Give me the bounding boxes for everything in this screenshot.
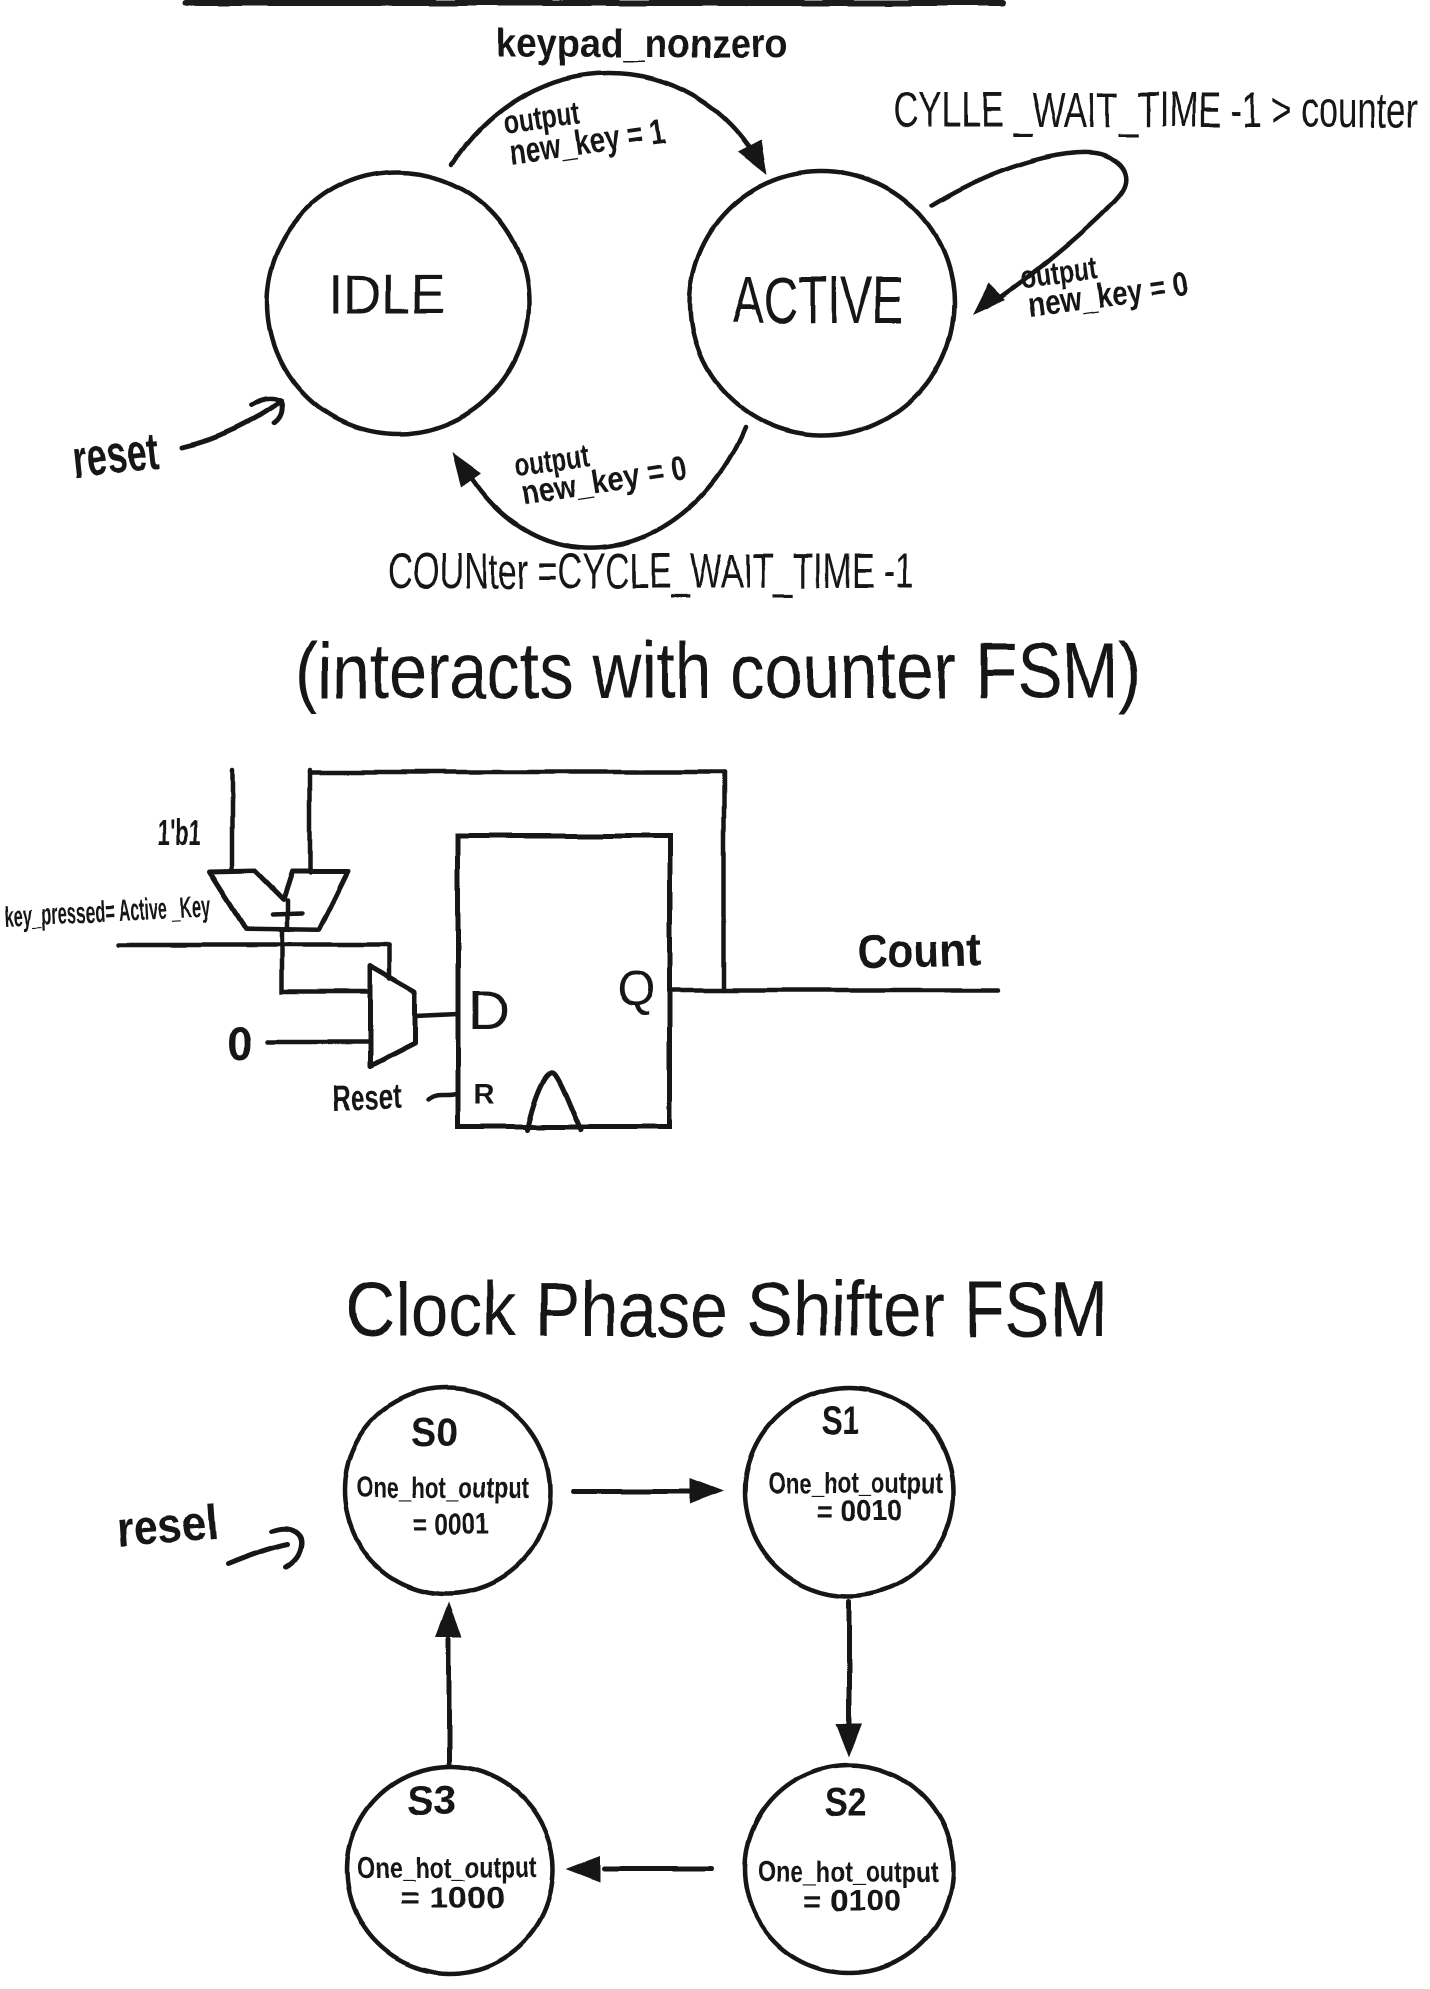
wire mux select vertical — [388, 945, 393, 979]
svg-text:Count: Count — [856, 922, 982, 978]
state S3 — [347, 1767, 553, 1973]
svg-text:0: 0 — [227, 1018, 253, 1070]
wire adder right input vertical — [308, 770, 313, 872]
svg-text:reset: reset — [70, 421, 162, 490]
arrow S2 to S3 — [604, 1867, 712, 1872]
svg-text:(interacts with counter FSM: (interacts with counter FSM) — [295, 626, 1141, 716]
wire mux output to D — [415, 1014, 458, 1016]
self loop on ACTIVE — [932, 152, 1126, 307]
reset arrow to IDLE — [182, 402, 280, 447]
svg-text:keypad_nonzero: keypad_nonzero — [496, 22, 788, 66]
adder plus sign — [272, 900, 302, 927]
svg-text:R: R — [474, 1079, 495, 1111]
svg-text:IDLE: IDLE — [329, 263, 446, 325]
state IDLE — [267, 172, 529, 434]
reset arrow swoosh — [228, 1544, 288, 1564]
transition arc ACTIVE to IDLE — [462, 427, 745, 548]
wire adder left input vertical (1'b1) — [230, 770, 235, 870]
svg-text:ACTIVE: ACTIVE — [732, 263, 904, 337]
action label output new_key = 1 — [500, 82, 668, 173]
svg-text:1'b1: 1'b1 — [157, 812, 200, 853]
svg-text:= 1000: = 1000 — [400, 1882, 505, 1915]
wire adder output — [282, 930, 370, 992]
svg-text:= 0010: = 0010 — [817, 1495, 903, 1528]
flip-flop U3 — [458, 836, 670, 1127]
state ACTIVE — [690, 171, 954, 435]
clock bump — [527, 1072, 581, 1130]
svg-text:CYLLE _WAIT_TIME -1 > counter: CYLLE _WAIT_TIME -1 > counter — [893, 82, 1418, 138]
arrow S0 to S1 — [573, 1489, 703, 1494]
wire feedback top horizontal — [310, 770, 724, 775]
reset arrow hook — [272, 1528, 302, 1567]
arrowhead self loop — [972, 283, 1005, 315]
action label output new_key = 0 (bottom arc) — [512, 422, 689, 514]
arrow S3 to S0 — [447, 1638, 452, 1764]
state S0 — [344, 1388, 550, 1594]
svg-text:resel: resel — [114, 1494, 221, 1557]
reset arrowhead (open) — [252, 399, 282, 423]
wire key_pressed horizontal — [118, 943, 390, 948]
svg-text:key_pressed= Active _Key: key_pressed= Active _Key — [4, 890, 213, 934]
svg-text:S3: S3 — [407, 1779, 457, 1823]
wire reset squiggle — [428, 1094, 458, 1100]
svg-text:S1: S1 — [821, 1399, 859, 1443]
svg-text:S0: S0 — [412, 1411, 458, 1455]
transition arc IDLE to ACTIVE — [452, 73, 762, 168]
svg-text:Q: Q — [617, 961, 656, 1017]
top cropped dark bar — [183, 0, 1006, 6]
svg-text:Reset: Reset — [332, 1077, 403, 1118]
svg-text:Clock Phase Shifter FSM: Clock Phase Shifter FSM — [346, 1265, 1107, 1353]
svg-text:S2: S2 — [825, 1781, 867, 1825]
wire Q output — [670, 988, 998, 993]
wire feedback vertical — [722, 772, 727, 990]
action label output new_key = 0 (self loop) — [1018, 237, 1192, 325]
svg-text:= 0001: = 0001 — [413, 1508, 489, 1541]
adder U1 — [210, 871, 348, 930]
state S1 — [745, 1388, 953, 1596]
arrowhead IDLE to ACTIVE — [738, 140, 767, 175]
arrowhead ACTIVE to IDLE — [452, 452, 481, 487]
svg-text:One_hot_output: One_hot_output — [356, 1472, 528, 1505]
svg-text:= 0100: = 0100 — [804, 1885, 901, 1918]
svg-text:One_hot_output: One_hot_output — [357, 1852, 537, 1885]
arrow S1 to S2 — [847, 1601, 852, 1726]
mux U2 — [370, 966, 415, 1066]
svg-text:D: D — [468, 978, 508, 1041]
state S2 — [745, 1765, 953, 1973]
svg-text:COUNter =CYCLE_WAIT_TIME -1: COUNter =CYCLE_WAIT_TIME -1 — [388, 543, 914, 599]
wire 0 input — [268, 1040, 370, 1045]
